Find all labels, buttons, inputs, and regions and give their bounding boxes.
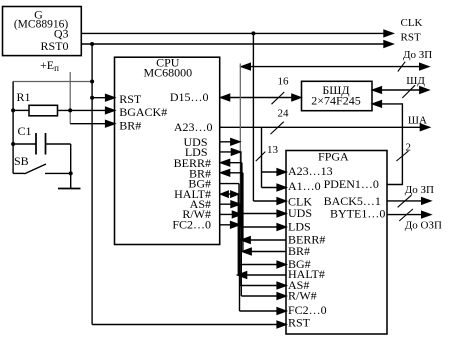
wire R/W# from CPU <box>220 213 242 215</box>
arrowhead HALT# into trunk low <box>238 272 247 278</box>
svg-text:R/W#: R/W# <box>288 289 317 303</box>
svg-text:BR#: BR# <box>288 244 310 258</box>
arrowhead LDS into FPGA <box>277 224 286 230</box>
bus slash 16 <box>272 92 285 104</box>
svg-text:ШД: ШД <box>406 75 425 87</box>
svg-text:LDS: LDS <box>288 220 311 234</box>
node dot link/rail RST0 <box>90 80 94 84</box>
wire BYTE1..0 to До ОЗП <box>387 214 422 216</box>
arrowhead CLK right <box>384 30 393 36</box>
wire SB right <box>45 172 71 174</box>
wire HALT# trunk vertical <box>237 194 239 275</box>
arrowhead PDEN into БШД <box>373 101 382 107</box>
svg-text:RST: RST <box>401 32 421 44</box>
wire CLK trunk vertical <box>252 33 254 201</box>
wire AS# from CPU <box>220 203 240 205</box>
wire PDEN path БШД side <box>374 104 403 185</box>
wire C1 down to switch node <box>70 144 72 173</box>
wire BERR# from FPGA <box>241 239 286 241</box>
ground <box>58 188 81 190</box>
arrowhead FC2..0 into FPGA <box>277 308 286 314</box>
svg-text:16: 16 <box>278 76 290 88</box>
svg-text:UDS: UDS <box>288 206 312 220</box>
arrowhead ША right <box>420 124 429 130</box>
arrowhead До ЗП right middle <box>422 198 431 204</box>
bus slash 24 <box>271 122 284 134</box>
wire D15 bus CPU to БШД <box>221 97 300 99</box>
wire BERR# trunk vertical <box>241 163 243 240</box>
wire BR# feed to CPU <box>70 123 113 125</box>
wire horizontal link RST0 to left rail <box>13 81 92 83</box>
wire BG# into FPGA <box>239 264 285 266</box>
wire +Eп vertical <box>69 72 71 124</box>
svg-text:24: 24 <box>278 108 290 120</box>
arrowhead До ЗП right <box>420 63 429 69</box>
arrowhead AS# into trunk <box>231 201 240 207</box>
wire resistor row left <box>13 109 29 111</box>
wire A23..13 branch into FPGA <box>262 171 286 173</box>
arrowhead ШД into БШД <box>373 87 382 93</box>
wire LDS into FPGA <box>241 226 285 228</box>
svg-text:BR#: BR# <box>119 118 141 132</box>
svg-text:До ОЗП: До ОЗП <box>405 220 442 232</box>
wire RST0 vertical (x=92) <box>91 44 93 325</box>
bus slash ШД <box>402 85 415 98</box>
arrowhead into CPU RST <box>106 95 115 101</box>
wire BR# to CPU <box>221 172 243 174</box>
svg-text:R1: R1 <box>17 90 31 104</box>
svg-text:PDEN1…0: PDEN1…0 <box>324 177 379 191</box>
arrowhead D bus into CPU <box>221 94 230 100</box>
wire BR# from FPGA <box>242 251 286 253</box>
node dot RST0 junction <box>90 42 94 46</box>
arrowhead BERR# into CPU <box>221 160 230 166</box>
CPU box <box>115 57 220 244</box>
arrowhead BERR# into trunk <box>241 237 250 243</box>
wire BG# from CPU <box>220 183 239 185</box>
node dot left of R1 <box>11 108 15 112</box>
wire CLK into FPGA <box>253 200 285 202</box>
arrowhead AS# into FPGA <box>277 282 286 288</box>
arrowhead UDS into trunk <box>231 139 240 145</box>
wire left rail vertical <box>12 82 14 174</box>
wire C1 left <box>13 143 36 145</box>
wire resistor row right to CPU BGACK# <box>58 109 114 111</box>
node dot RST row <box>90 96 94 100</box>
svg-text:13: 13 <box>267 144 279 156</box>
wire A bus vertical tap <box>261 127 263 187</box>
arrowhead LDS into trunk <box>231 149 240 155</box>
arrowhead R/W# into trunk <box>232 211 241 217</box>
svg-text:RST: RST <box>119 92 142 106</box>
svg-text:SB: SB <box>14 154 29 168</box>
arrowhead ШД right <box>420 87 429 93</box>
wire R/W# into FPGA <box>241 295 285 297</box>
bus slash BACK <box>398 195 412 207</box>
svg-text:A23…0: A23…0 <box>174 120 213 134</box>
FPGA box <box>286 151 387 335</box>
arrowhead HALT# into trunk <box>231 191 239 197</box>
svg-text:2×74F245: 2×74F245 <box>311 94 360 108</box>
svg-text:FPGA: FPGA <box>318 150 349 164</box>
wire A23...0 bus to ША <box>220 126 421 128</box>
wire UDS into FPGA <box>240 213 285 215</box>
capacitor C1 left plate <box>35 133 37 155</box>
svg-text:ША: ША <box>408 115 427 127</box>
arrowhead BG# into FPGA <box>277 261 286 267</box>
svg-text:2: 2 <box>406 142 412 154</box>
node dot R1/+Eп junction <box>68 108 72 112</box>
node dot SB/C1/ground <box>69 171 73 175</box>
switch SB blade <box>24 164 46 174</box>
node dot on CLK line (CLK trunk tap) <box>251 31 255 35</box>
wire R/W# trunk vertical <box>240 214 242 296</box>
arrowhead BR# into CPU <box>221 170 230 176</box>
bus slash BYTE <box>399 209 413 221</box>
arrowhead RST right <box>384 41 393 47</box>
arrowhead UDS into FPGA <box>277 210 286 216</box>
wire LDS from CPU <box>220 151 241 153</box>
wire SB left stub <box>13 172 24 174</box>
wire BERR# to CPU <box>221 162 242 164</box>
svg-text:C1: C1 <box>18 124 32 138</box>
wire RST long line to FPGA <box>92 324 285 326</box>
wire to ground <box>70 173 72 188</box>
wire ШД bus <box>374 89 421 91</box>
arrowhead into CPU BGACK# <box>106 107 115 113</box>
svg-text:MC68000: MC68000 <box>143 66 192 80</box>
arrowhead into CPU BR# <box>106 121 115 127</box>
svg-text:CLK: CLK <box>401 17 423 29</box>
wire RST into CPU <box>92 97 114 99</box>
arrowhead RST into FPGA <box>277 321 286 327</box>
svg-text:BYTE1…0: BYTE1…0 <box>330 207 385 221</box>
arrowhead До ОЗП right <box>422 211 431 217</box>
wire AS# into FPGA <box>240 285 285 287</box>
arrowhead A23..13 into FPGA <box>277 169 286 175</box>
arrowhead R/W# into FPGA <box>277 293 286 299</box>
arrowhead D bus into БШД <box>292 94 301 100</box>
resistor R1 body <box>29 105 58 116</box>
bus slash on До ЗП line <box>398 62 405 72</box>
svg-text:До ЗП: До ЗП <box>403 49 432 61</box>
svg-text:RST: RST <box>288 316 311 330</box>
wire HALT# from FPGA <box>238 274 286 276</box>
svg-text:FC2…0: FC2…0 <box>172 218 211 232</box>
wire До ЗП top line <box>241 66 421 68</box>
wire LDS trunk vertical <box>240 152 242 227</box>
bus slash 13 <box>256 152 265 162</box>
svg-text:BGACK#: BGACK# <box>119 105 167 119</box>
wire FC2..0 trunk vertical <box>239 225 241 311</box>
arrowhead CLK into FPGA <box>277 198 286 204</box>
wire C1 right <box>46 143 71 145</box>
wire BR# trunk vertical <box>242 173 244 252</box>
bus slash 2 <box>396 151 408 161</box>
arrowhead BR# into trunk <box>242 248 251 254</box>
svg-text:До ЗП: До ЗП <box>405 184 434 196</box>
svg-text:D15…0: D15…0 <box>170 90 209 104</box>
wire RST line from RST0 to right edge <box>81 43 385 45</box>
arrowhead До ЗП left into trunk <box>241 63 250 69</box>
clock generator G box <box>3 7 82 56</box>
wire FC2..0 from CPU <box>220 224 240 226</box>
capacitor C1 right plate <box>45 133 47 155</box>
wire UDS from CPU <box>220 141 240 143</box>
svg-text:RST0: RST0 <box>40 39 68 53</box>
БШД box <box>302 81 373 110</box>
wire CLK line from Q3 to right edge <box>81 32 385 34</box>
wire BG# trunk vertical <box>238 184 240 265</box>
svg-text:A1…0: A1…0 <box>288 179 321 193</box>
arrowhead A1..0 into FPGA <box>277 184 286 190</box>
wire FC2..0 into FPGA <box>240 310 286 312</box>
wire AS# trunk vertical <box>239 204 241 285</box>
arrowhead FC2..0 into trunk <box>231 222 240 228</box>
wire BACK5..1 to До ЗП <box>387 200 422 202</box>
wire HALT# CPU row <box>221 193 239 195</box>
node dot C1 left rail <box>11 142 15 146</box>
arrowhead HALT# into CPU <box>221 191 229 197</box>
wire A1..0 into FPGA <box>262 187 286 189</box>
svg-text:A23…13: A23…13 <box>288 164 333 178</box>
wire UDS/ДоЗП trunk vertical <box>239 64 241 214</box>
